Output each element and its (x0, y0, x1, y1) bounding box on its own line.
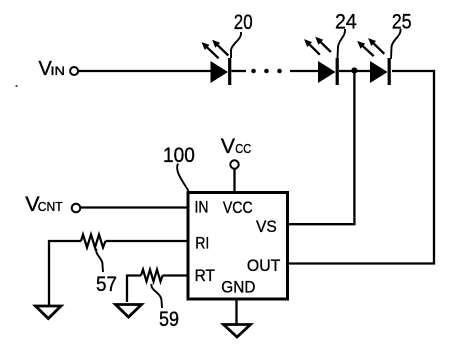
svg-text:CNT: CNT (38, 199, 63, 214)
svg-text:25: 25 (392, 9, 412, 33)
svg-text:OUT: OUT (247, 256, 280, 275)
svg-text:20: 20 (234, 10, 253, 34)
svg-text:59: 59 (159, 307, 179, 331)
svg-text:IN: IN (195, 198, 209, 217)
svg-text:RT: RT (195, 266, 215, 285)
svg-text:VCC: VCC (223, 198, 253, 217)
svg-text:24: 24 (335, 9, 357, 33)
svg-text:RI: RI (195, 234, 209, 253)
svg-text:CC: CC (235, 142, 251, 156)
svg-text:GND: GND (221, 278, 255, 297)
svg-text:57: 57 (96, 272, 117, 296)
svg-text:VS: VS (256, 217, 277, 236)
svg-text:V: V (221, 134, 236, 158)
svg-text:100: 100 (163, 143, 195, 167)
svg-text:IN: IN (51, 66, 66, 78)
